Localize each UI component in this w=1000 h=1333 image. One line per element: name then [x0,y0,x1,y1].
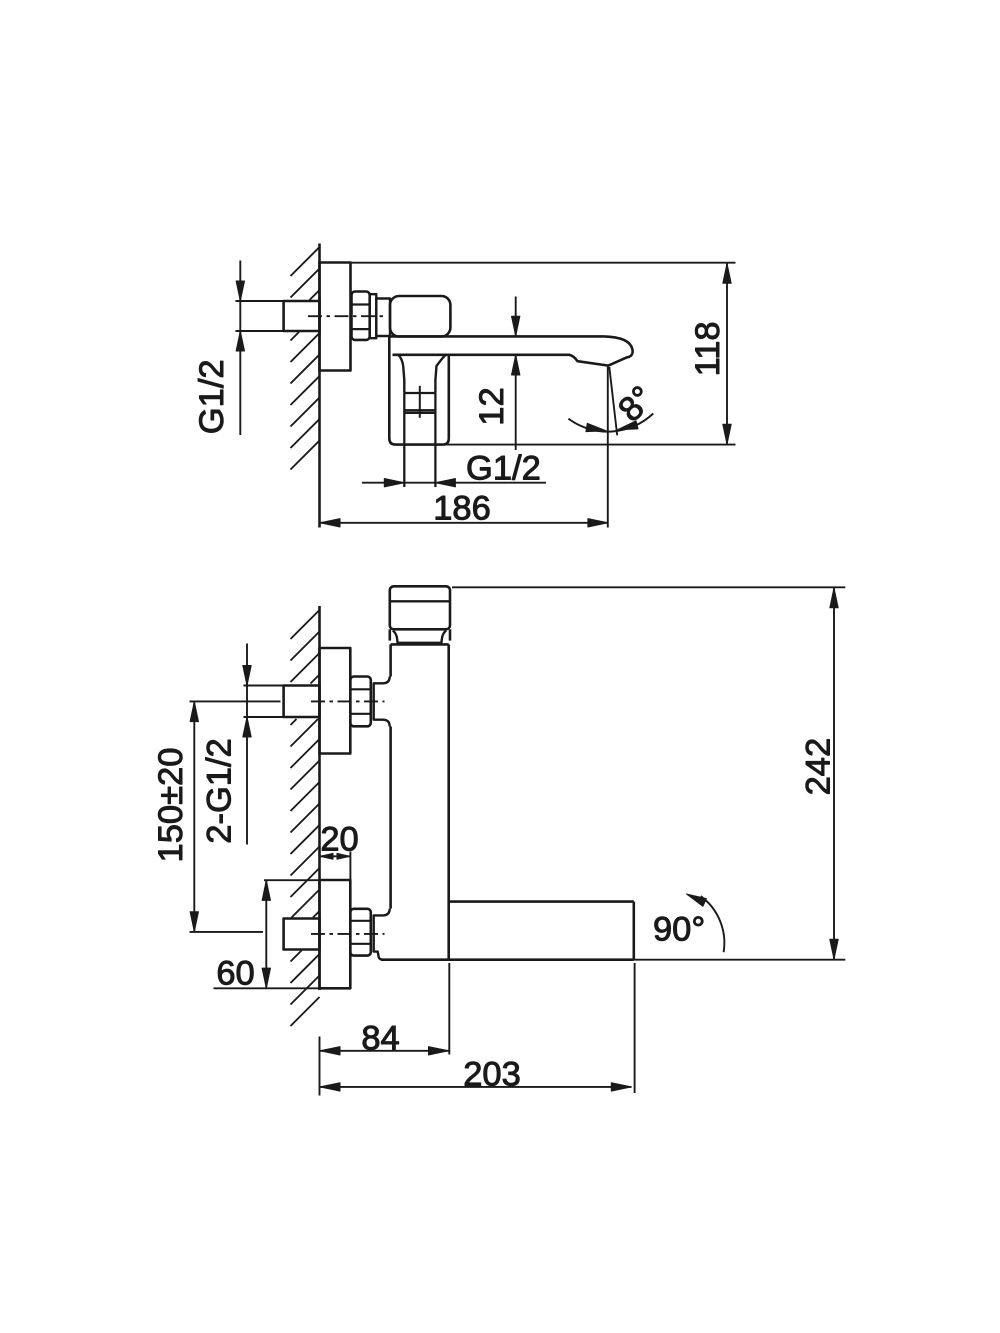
outlet fitting square and tube (top view) [404,393,435,487]
spout rotated down (bottom view) [449,902,634,960]
dim 84: right extension line [448,963,450,1055]
angle 8: dimension arc [568,414,653,432]
dim G1/2 left: lower arrow [236,331,244,351]
washer (top view) [370,294,377,338]
dim 84: right arrow [429,1047,449,1055]
faucet body (top view) [390,296,450,337]
svg-text:G1/2: G1/2 [466,450,541,488]
lower hex nut (bottom view) [350,909,371,956]
dim 2-G1/2 small: dimension line [246,644,248,845]
dim G1/2 bottom: left arrow [384,479,404,487]
dim 60: dimension line [265,880,267,988]
svg-text:90°: 90° [653,911,705,949]
fitting tick mark (top view) [419,386,421,418]
handle neck (bottom view) [393,631,446,643]
upper hex nut (bottom view) [350,677,371,727]
upper connector boss (bottom view) [374,677,390,727]
upper inlet centerline (bottom view) [311,700,385,702]
svg-text:118: 118 [689,321,727,376]
svg-text:G1/2: G1/2 [193,359,231,434]
dim 60: top extension line [264,879,321,881]
dim 84: dimension line [320,1050,449,1052]
dim 118: dimension line [726,263,728,444]
extension lines of inlet pipe for G1/2 dim (top view) [236,300,285,302]
dim 12: upper dimension line [515,297,517,337]
hex nut (top view) [352,292,370,340]
dim 186: left arrow [320,519,340,527]
inlet pipe nipple (top view) [284,301,320,331]
connector piece (top view) [376,299,390,337]
lower connector boss (bottom view) [374,909,390,960]
dim 118: bottom extension line [443,444,736,446]
dim G1/2 left: dimension line [239,261,241,436]
dim 150+-20: dimension line [193,701,195,932]
dim 60: top arrow [262,880,270,900]
centerline of inlet (top view) [308,315,386,317]
handle cap side stubs [388,629,391,640]
dim 84: left extension line (wall) [319,1037,321,1096]
svg-text:242: 242 [800,738,838,796]
dim 60: bottom extension line [214,987,322,989]
dim 12: lower arrow [512,355,520,375]
dim 12: lower dimension line [515,355,517,450]
angle 90: rotation arc [701,896,725,952]
dim 203: dimension line [320,1086,632,1088]
angle 8: vertical reference line from spout tip [607,366,609,528]
svg-text:60: 60 [216,955,254,993]
dim 242: bottom arrow [830,939,838,959]
dim 20: extension line [349,852,351,880]
dim 118: top arrow [723,263,731,283]
dim 203: right extension line [634,963,636,1093]
upper inlet pipe (bottom view) [284,686,320,718]
upper wall flange (bottom view) [320,648,351,754]
svg-text:84: 84 [361,1020,399,1058]
svg-text:186: 186 [433,490,491,528]
dim 60: bottom arrow [262,968,270,988]
dim 20: dimension line with arrows [320,855,351,857]
dim 242: top arrow [830,588,838,608]
dim 186: right arrow [588,519,608,527]
wall line (bottom view) [318,606,321,990]
angle 8: slanted 8-degree line [609,367,617,435]
dim 2-G1/2 small: upper arrow [243,666,251,686]
dim G1/2 left: upper arrow [236,281,244,301]
svg-text:150±20: 150±20 [152,748,190,863]
lower inlet centerline (bottom view) [311,933,385,935]
dim 12: upper arrow [512,316,520,336]
svg-text:203: 203 [463,1056,521,1094]
funnel right wall (top view) [435,355,445,393]
lower wall flange (bottom view) [320,880,351,988]
svg-text:12: 12 [473,387,511,425]
spout (top view) [390,336,633,365]
handle cap (bottom view) [390,586,450,629]
dim 150+-20: top extension line [190,700,281,702]
angle 8: left arrow [586,423,606,431]
dim 150+-20: bottom extension line [190,931,264,933]
dim 150+-20: bottom arrow [190,912,198,932]
dim 118: top extension line [351,262,736,264]
dim 242: top extension line [452,586,845,588]
faucet body (bottom view) [381,644,634,959]
angle 8: right arrow [618,421,638,430]
extension lines of upper inlet pipe (bottom view) [244,685,285,687]
dim 242: dimension line [833,588,835,960]
wall flange escutcheon (top view) [320,263,351,371]
angle 90: arc arrow [687,894,707,906]
dim 84: left arrow [320,1047,340,1055]
svg-text:2-G1/2: 2-G1/2 [201,738,239,843]
funnel left wall (top view) [399,355,405,393]
svg-text:20: 20 [320,821,358,859]
dim 150+-20: top arrow [190,702,198,722]
dim 242: bottom extension line [634,959,846,961]
dim 203: left arrow [320,1083,340,1091]
wall line (top view) [318,244,321,528]
lower inlet pipe (bottom view) [284,919,320,950]
dim G1/2 bottom: right arrow [435,479,455,487]
dim 118: bottom arrow [723,424,731,444]
dim G1/2 bottom: dimension line [362,482,546,484]
dim 2-G1/2 small: lower arrow [243,717,251,737]
wall hatching (top view) [291,247,320,470]
dim 186: dimension line [320,522,609,524]
cover / spout base under body (top view) [389,337,449,445]
dim 203: right arrow [611,1083,631,1091]
wall hatching (bottom view) [291,610,320,1026]
